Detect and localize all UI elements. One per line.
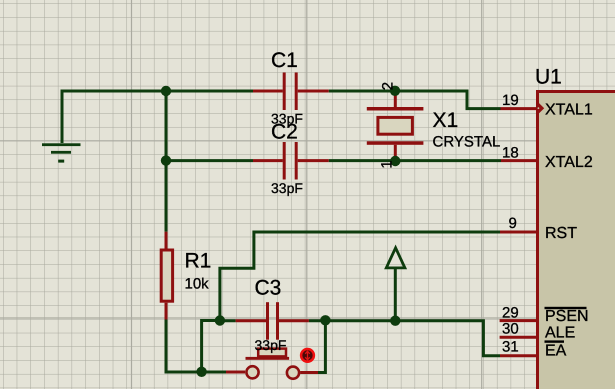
svg-text:2: 2 xyxy=(379,82,396,90)
pin 30 stub ALE xyxy=(500,336,537,339)
wire: R1 bottom to button bottom rail xyxy=(166,320,201,373)
darker grid line D xyxy=(0,140,615,142)
label U1 xyxy=(535,66,562,89)
wire: top XTAL1 net from ground corner to C1 xyxy=(62,90,253,93)
svg-text:XTAL2: XTAL2 xyxy=(545,154,593,171)
wire: node C to bottom rail xyxy=(202,321,220,372)
wire: RST net xyxy=(220,232,500,321)
button cap xyxy=(258,349,286,357)
darker grid line B xyxy=(306,0,308,389)
pin name EA with overline xyxy=(545,340,567,359)
crystal X1 xyxy=(367,92,424,160)
value 10k xyxy=(185,275,210,292)
capacitor C1 xyxy=(253,73,329,111)
capacitor C3 xyxy=(236,302,309,340)
wire: ground stem xyxy=(61,90,64,144)
darker grid line A xyxy=(131,0,133,389)
svg-text:CRYSTAL: CRYSTAL xyxy=(433,134,501,151)
svg-text:C1: C1 xyxy=(271,49,298,72)
svg-text:PSEN: PSEN xyxy=(545,308,589,325)
node crystal top junction xyxy=(390,86,400,96)
pin XTAL1 clock arrow xyxy=(537,102,543,114)
pin 1 label (crystal bottom) xyxy=(379,160,396,168)
wire: C2 net left xyxy=(166,159,253,162)
svg-text:33pF: 33pF xyxy=(271,180,303,196)
pin 9 number xyxy=(509,215,517,232)
pin 29 number xyxy=(502,304,519,321)
button right contact xyxy=(287,367,299,379)
pin 29 stub PSEN xyxy=(500,319,537,322)
pin 2 label (crystal top) xyxy=(379,82,396,90)
pin 31 stub EA xyxy=(500,354,537,357)
pin 19 number xyxy=(502,92,519,109)
svg-text:19: 19 xyxy=(502,92,519,109)
node F junction (bottom rail) xyxy=(196,367,206,377)
wire: C3 net left vertical green xyxy=(220,319,236,322)
pin 18 stub XTAL2 xyxy=(501,159,537,162)
wire: vertical from node A down to R1 xyxy=(165,91,168,232)
pin name XTAL2 xyxy=(545,154,593,171)
svg-text:RST: RST xyxy=(545,225,577,242)
power arrow up xyxy=(386,248,405,321)
button actuator marker xyxy=(301,349,314,362)
value 33pF (C3) xyxy=(255,337,287,353)
wire: C1 to XTAL1 pin with step xyxy=(329,91,501,109)
svg-text:10k: 10k xyxy=(185,275,210,292)
label X1 xyxy=(433,109,459,132)
node crystal bottom junction xyxy=(390,156,400,166)
button left contact xyxy=(246,366,258,378)
resistor R1 xyxy=(161,232,172,320)
node B junction xyxy=(161,155,171,165)
wire: C2 to XTAL2 pin xyxy=(329,159,501,162)
capacitor C2 xyxy=(253,142,329,180)
svg-text:U1: U1 xyxy=(535,66,562,89)
svg-text:R1: R1 xyxy=(185,250,212,273)
svg-text:EA: EA xyxy=(545,342,567,359)
node C junction (RST/C3/button) xyxy=(215,315,225,325)
svg-text:29: 29 xyxy=(502,304,519,321)
svg-text:XTAL1: XTAL1 xyxy=(545,101,593,118)
pin 31 number xyxy=(502,339,519,356)
darker grid line C xyxy=(481,0,483,389)
node D junction (button right riser) xyxy=(320,315,330,325)
wire: C3 right to EA with branches xyxy=(309,321,500,356)
svg-text:X1: X1 xyxy=(433,109,459,132)
pin 9 stub RST xyxy=(500,231,537,234)
value 33pF (C1) xyxy=(271,111,303,127)
svg-text:C3: C3 xyxy=(255,277,282,300)
svg-text:C2: C2 xyxy=(271,121,298,144)
button left lead xyxy=(226,371,245,374)
pin 18 number xyxy=(502,144,519,161)
node A junction xyxy=(161,86,171,96)
button right lead xyxy=(300,371,318,374)
ground xyxy=(42,143,81,162)
svg-text:30: 30 xyxy=(502,321,519,338)
node E junction (power arrow stem) xyxy=(390,316,400,326)
pin 19 stub XTAL1 xyxy=(501,107,538,110)
wire: button right riser xyxy=(318,321,325,374)
svg-text:33pF: 33pF xyxy=(255,337,287,353)
label C2 xyxy=(271,121,298,144)
svg-text:31: 31 xyxy=(502,339,519,356)
button bar xyxy=(246,357,290,360)
chip U1 body xyxy=(538,92,615,389)
value CRYSTAL xyxy=(433,134,501,151)
svg-text:18: 18 xyxy=(502,144,519,161)
svg-text:9: 9 xyxy=(509,215,517,232)
pin name PSEN with overline xyxy=(545,307,589,325)
pin 30 number xyxy=(502,321,519,338)
wire: bottom rail junction to left button contact xyxy=(201,371,227,374)
label R1 xyxy=(185,250,212,273)
svg-text:ALE: ALE xyxy=(545,325,575,342)
pin name RST xyxy=(545,225,577,242)
label C1 xyxy=(271,49,298,72)
pin name XTAL1 xyxy=(545,101,593,118)
label C3 xyxy=(255,277,282,300)
pin name ALE xyxy=(545,325,575,342)
svg-text:1: 1 xyxy=(379,160,396,168)
darker grid line E xyxy=(0,317,615,319)
value 33pF (C2) xyxy=(271,180,303,196)
